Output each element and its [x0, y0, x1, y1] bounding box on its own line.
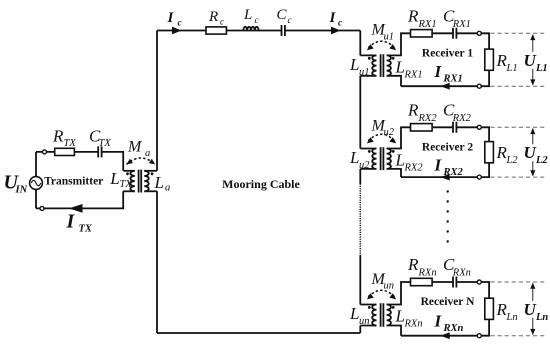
label I_RX2	[434, 156, 464, 179]
wire receiver 2 bottom-left	[387, 169, 401, 177]
label L_u2	[349, 148, 370, 171]
node terminal receiver 1 bottom	[477, 84, 481, 88]
inductor L_u2	[372, 149, 376, 169]
wire right vertical seg2	[359, 76, 361, 149]
svg-text:Receiver N: Receiver N	[421, 296, 475, 308]
label M_u2	[371, 117, 395, 138]
svg-text:a: a	[165, 183, 170, 194]
svg-text:L: L	[395, 151, 405, 170]
label C_c	[277, 7, 293, 26]
label C_RX2	[443, 100, 472, 124]
node corner top-left	[156, 31, 158, 171]
wire receiver 1 bottom-left	[387, 76, 401, 86]
transformer core TX	[139, 170, 142, 193]
svg-text:un: un	[384, 281, 395, 292]
svg-text:RX1: RX1	[452, 19, 471, 30]
svg-text:Mooring Cable: Mooring Cable	[222, 177, 300, 191]
svg-text:Transmitter: Transmitter	[44, 176, 103, 188]
label M_a	[127, 138, 150, 159]
inductor L_u1	[372, 55, 376, 75]
node terminal receiver 1 top	[477, 31, 481, 35]
svg-text:C: C	[277, 7, 288, 23]
wire jog L_TX top	[123, 170, 135, 172]
svg-text:R: R	[407, 255, 419, 274]
transformer core 2	[381, 147, 384, 170]
label I_c left	[167, 10, 183, 29]
polarity dot L_RX2	[392, 150, 395, 153]
label L_RX2	[395, 151, 424, 174]
label R_TX	[52, 126, 76, 149]
wire right vertical seg1	[359, 31, 361, 56]
wire receiver 1 top-left	[387, 33, 453, 55]
svg-text:RX1: RX1	[418, 19, 437, 30]
svg-text:IN: IN	[15, 185, 28, 196]
polarity dot L_RX1	[392, 57, 395, 60]
svg-text:RX2: RX2	[443, 167, 464, 178]
inductor L_c	[243, 27, 258, 31]
transformer core 1	[381, 54, 384, 77]
wire receiver 1 top-right	[456, 33, 489, 49]
wire right vertical dotted section	[359, 184, 361, 256]
label C_RX1	[443, 6, 471, 30]
svg-text:L2: L2	[535, 155, 548, 166]
resistor R_RX2	[411, 124, 433, 131]
wire jog L_un bottom	[360, 325, 376, 327]
wire receiver 2 top-left	[387, 127, 453, 148]
node terminal TX top	[43, 150, 47, 154]
label L_TX	[109, 169, 132, 190]
inductor L_RXn	[387, 305, 391, 326]
transformer core 3	[381, 303, 384, 326]
label L_RX1	[395, 57, 423, 80]
voltage arrow U_Ln	[530, 283, 535, 335]
svg-text:Ln: Ln	[506, 312, 518, 323]
svg-text:RXn: RXn	[443, 323, 464, 334]
svg-text:I: I	[66, 211, 76, 233]
wire jog L_a top	[144, 170, 157, 172]
wire receiver 2 bottom-right	[401, 163, 489, 177]
polarity dot L_RXn	[392, 306, 395, 309]
label L_u1	[349, 55, 370, 78]
svg-text:L: L	[349, 55, 359, 74]
capacitor C_TX	[98, 146, 101, 158]
svg-text:L: L	[109, 169, 119, 188]
svg-text:L1: L1	[506, 63, 518, 74]
resistor R_L1	[485, 49, 494, 70]
M_u2 arrowhead left	[367, 137, 374, 143]
label U_Ln	[522, 300, 549, 323]
ellipsis dots between receivers	[447, 190, 449, 242]
label R_RX1	[407, 6, 437, 30]
svg-text:RXn: RXn	[452, 268, 471, 279]
svg-text:RX2: RX2	[404, 163, 424, 174]
dashed line receiver 1 bottom	[490, 85, 545, 87]
mutual coupling M_u2 arc	[368, 134, 394, 141]
wire jog L_TX bottom	[123, 190, 135, 192]
svg-text:un: un	[359, 316, 370, 327]
dashed line receiver 2 bottom	[490, 176, 545, 178]
svg-text:u2: u2	[359, 160, 370, 171]
node terminal receiver 3 top	[477, 280, 481, 284]
label U_L2	[522, 143, 549, 166]
svg-text:RXn: RXn	[404, 319, 423, 330]
svg-text:RXn: RXn	[418, 268, 437, 279]
mutual coupling M_un arc	[368, 290, 394, 297]
inductor L_TX	[130, 171, 134, 192]
wire TX top	[36, 151, 98, 153]
svg-text:Receiver 2: Receiver 2	[422, 141, 473, 153]
node terminal TX bottom	[40, 206, 44, 210]
node terminal receiver 2 bottom	[477, 175, 481, 179]
resistor R_TX	[55, 148, 75, 155]
polarity dot L_u2	[368, 150, 371, 153]
label I_RX1	[434, 62, 463, 85]
svg-text:L1: L1	[535, 63, 548, 74]
label L_a	[154, 173, 171, 194]
label M_un	[371, 271, 395, 292]
svg-text:L: L	[243, 7, 252, 23]
wire right vertical seg5	[359, 326, 361, 334]
capacitor C_RXn	[453, 277, 456, 288]
wire receiver 2 top-right	[456, 127, 489, 141]
wire TX top right	[102, 152, 124, 171]
label R_c	[208, 9, 225, 28]
wire receiver 3 top-left	[387, 282, 453, 305]
resistor R_c	[206, 27, 226, 34]
mutual coupling M_u1 arc	[368, 41, 394, 48]
wire jog L_a bottom	[144, 190, 157, 192]
M_u2 arrowhead right	[389, 137, 396, 143]
svg-text:L2: L2	[506, 155, 519, 166]
svg-text:R: R	[52, 126, 64, 145]
svg-text:I: I	[329, 10, 337, 26]
svg-text:u1: u1	[384, 31, 395, 42]
voltage arrow U_L2	[530, 128, 535, 176]
svg-text:TX: TX	[99, 138, 112, 149]
inductor L_RX1	[387, 55, 391, 75]
label R_L2	[496, 143, 519, 166]
label L_un	[349, 304, 370, 327]
resistor R_RXn	[411, 278, 433, 285]
svg-text:L: L	[395, 307, 405, 326]
label I_RXn	[434, 312, 464, 335]
svg-text:RX2: RX2	[418, 113, 438, 124]
current arrow I_RX2	[441, 174, 450, 181]
svg-text:Ln: Ln	[535, 312, 548, 323]
label M_u1	[371, 22, 395, 43]
inductor L_RX2	[387, 149, 391, 169]
svg-text:u2: u2	[384, 127, 395, 138]
label C_RXn	[443, 255, 471, 279]
label R_RXn	[407, 255, 437, 279]
svg-text:RX1: RX1	[404, 69, 423, 80]
current arrow I_TX	[69, 204, 83, 213]
dashed line receiver 3 top	[490, 281, 545, 283]
svg-text:u1: u1	[359, 67, 370, 78]
label R_Ln	[496, 300, 518, 323]
inductor L_un	[372, 305, 376, 326]
label C_TX	[89, 126, 111, 149]
svg-text:L: L	[395, 57, 405, 76]
resistor R_L2	[485, 142, 494, 163]
label I_TX	[66, 211, 93, 235]
svg-text:M: M	[127, 138, 143, 155]
svg-text:RX1: RX1	[443, 74, 463, 85]
node terminal receiver 3 bottom	[477, 334, 481, 338]
label U_L1	[522, 51, 548, 74]
wire mooring-loop bottom	[157, 332, 360, 334]
svg-text:U: U	[524, 300, 537, 319]
svg-text:RX2: RX2	[452, 113, 472, 124]
svg-text:TX: TX	[64, 138, 77, 149]
wire receiver 3 bottom-right	[401, 320, 489, 336]
current arrow I_RX1	[441, 83, 450, 90]
polarity dot L_u1	[368, 57, 371, 60]
source U_IN	[30, 177, 43, 190]
M_a arrowhead left	[127, 159, 133, 165]
M_un arrowhead right	[389, 293, 396, 299]
M_a arrowhead right	[149, 159, 155, 165]
label R_RX2	[407, 100, 437, 124]
capacitor C_RX2	[453, 122, 456, 133]
dashed line receiver 2 top	[490, 126, 545, 128]
wire jog L_u1 top	[360, 54, 376, 56]
M_u1 arrowhead left	[367, 44, 374, 50]
svg-text:TX: TX	[120, 179, 133, 190]
wire mooring-loop top	[157, 30, 360, 32]
M_u1 arrowhead right	[389, 44, 396, 50]
label L_c	[243, 7, 260, 26]
svg-text:I: I	[167, 10, 175, 26]
svg-text:a: a	[145, 148, 150, 159]
svg-text:L: L	[349, 148, 359, 167]
wire mooring-loop left lower	[156, 191, 158, 333]
svg-text:R: R	[407, 100, 419, 119]
label L_RXn	[395, 307, 423, 330]
polarity dot L_a	[151, 172, 154, 175]
dashed line receiver 1 top	[490, 32, 545, 34]
mutual coupling M_a arc	[127, 158, 156, 164]
svg-text:R: R	[407, 6, 419, 25]
wire right vertical seg4	[359, 256, 361, 305]
inductor L_a	[144, 171, 148, 192]
wire jog L_u1 bottom	[360, 75, 376, 77]
wire receiver 1 bottom-right	[401, 70, 489, 86]
svg-text:L: L	[349, 304, 359, 323]
current arrow I_c left	[172, 27, 182, 35]
wire jog L_u2 bottom	[360, 168, 376, 170]
wire TX left lower	[35, 189, 37, 208]
label R_L1	[496, 51, 518, 74]
svg-text:U: U	[524, 143, 537, 162]
dashed line receiver 3 bottom	[490, 335, 545, 337]
capacitor C_RX1	[453, 28, 456, 39]
wire right vertical seg3	[359, 169, 361, 184]
voltage arrow U_L1	[530, 34, 535, 85]
node terminal receiver 2 top	[477, 125, 481, 129]
wire jog L_un top	[360, 304, 376, 306]
svg-text:U: U	[524, 51, 537, 70]
resistor R_RX1	[411, 30, 433, 37]
current arrow I_c right	[331, 27, 341, 35]
wire jog L_u2 top	[360, 148, 376, 150]
wire TX left upper	[35, 152, 37, 177]
label U_IN	[4, 172, 28, 196]
svg-text:Receiver 1: Receiver 1	[422, 47, 473, 59]
current arrow I_RXn	[441, 332, 450, 339]
resistor R_Ln	[485, 298, 494, 319]
label I_c right	[329, 10, 344, 28]
polarity dot L_TX	[126, 172, 129, 175]
wire receiver 3 bottom-left	[387, 326, 401, 336]
capacitor C_c	[282, 24, 285, 36]
svg-text:R: R	[208, 9, 218, 25]
polarity dot L_un	[368, 306, 371, 309]
wire TX bottom	[36, 191, 123, 208]
wire receiver 3 top-right	[456, 282, 489, 298]
svg-text:TX: TX	[79, 224, 93, 235]
svg-text:L: L	[154, 173, 164, 192]
M_un arrowhead left	[367, 293, 374, 299]
